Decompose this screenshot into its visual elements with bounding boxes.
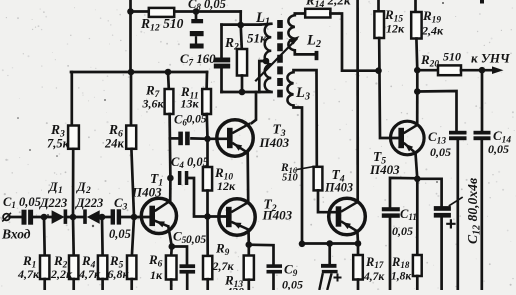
node T5 emitter junction	[414, 176, 421, 183]
wire R11 bottom lead	[205, 114, 208, 139]
svg-text:2: 2	[85, 186, 91, 196]
wire C1 to D1	[33, 216, 51, 219]
wire T2 base wire	[208, 215, 226, 218]
svg-text:0,05: 0,05	[488, 142, 509, 156]
svg-text:R20: R20	[420, 52, 439, 69]
svg-text:510: 510	[282, 173, 299, 184]
node T2 base junction	[204, 213, 211, 220]
svg-text:0,05: 0,05	[392, 224, 413, 238]
node T4 emitter junction	[355, 240, 362, 247]
node C10 tap	[326, 240, 333, 247]
svg-text:C6: C6	[174, 113, 187, 128]
svg-text:13к: 13к	[181, 97, 200, 111]
svg-text:7,5к: 7,5к	[47, 137, 70, 151]
svg-text:C13: C13	[428, 129, 446, 146]
label L3	[295, 85, 310, 103]
wire R10 bottom lead	[206, 191, 209, 217]
capacitor C12 electrolytic	[434, 206, 456, 228]
capacitor C10 electrolytic	[319, 264, 341, 290]
node L1 tap	[263, 58, 270, 65]
capacitor C13	[449, 131, 467, 140]
node bus left	[299, 241, 306, 248]
wire R15 bottom / T5 base column	[379, 38, 399, 138]
label Д2 Д223	[75, 180, 103, 210]
wire rail to R21 corner	[239, 12, 242, 26]
label T2	[264, 197, 277, 214]
label R5 6,8к	[108, 253, 130, 281]
wire T4 emitter lead	[356, 231, 359, 243]
wire C14 top lead	[481, 70, 484, 131]
capacitor C5	[180, 264, 196, 273]
wire R6 top lead	[130, 72, 133, 126]
wire R1 bottom lead	[43, 279, 46, 290]
label C3 value 0,05	[109, 227, 131, 241]
wire C9 bottom lead	[272, 274, 275, 291]
wire R3 bottom lead	[72, 149, 75, 217]
label R20 510	[420, 50, 461, 70]
coil L1	[265, 24, 272, 92]
wire R16 bottom lead to T4 base	[318, 190, 336, 212]
wire T5 collector lead	[416, 92, 419, 126]
label R6 1к	[148, 252, 163, 282]
svg-text:C3: C3	[114, 195, 128, 212]
label L2	[306, 33, 321, 51]
label C8 0,05	[188, 0, 226, 12]
resistor R14	[305, 9, 330, 18]
wire top supply rail y=11.5	[130, 10, 241, 13]
label R12 510	[140, 16, 184, 33]
wire L2 bottom lead	[295, 50, 315, 54]
coil L2	[288, 15, 294, 50]
wire T2 emitter lead	[247, 230, 250, 245]
ink speck top right	[480, 0, 484, 4]
label R13 value 430	[225, 285, 244, 295]
node R1 tap	[41, 214, 48, 221]
label Вход	[1, 227, 31, 242]
svg-text:L2: L2	[306, 33, 321, 51]
wire R4 top lead	[101, 217, 104, 256]
node R21 bottom junction	[239, 89, 246, 96]
resistor R3	[68, 126, 79, 149]
wire R1 top lead	[43, 217, 46, 256]
wire R2 bottom lead	[72, 279, 75, 290]
node bias rail / R7	[165, 69, 172, 76]
input terminal	[2, 213, 11, 222]
wire C14 bottom lead	[480, 140, 483, 290]
diode D2	[83, 209, 100, 224]
wire R6a bottom lead	[170, 280, 173, 291]
transistor T3	[217, 120, 253, 156]
wire resonant bottom wire y=92	[222, 91, 272, 94]
wire R7 top lead	[167, 72, 171, 89]
capacitor C4	[178, 171, 188, 185]
wire C10 stem	[328, 244, 331, 265]
label L1	[255, 10, 270, 28]
svg-text:Д: Д	[76, 180, 86, 194]
resistor R6 1k	[166, 256, 177, 280]
wire C11 branch	[390, 178, 417, 207]
svg-text:3,6к: 3,6к	[142, 97, 165, 111]
wire L1 tap lead	[259, 61, 266, 92]
label R1 4,7к	[17, 253, 40, 281]
svg-text:0,05: 0,05	[187, 114, 207, 126]
node C13 branch	[414, 88, 421, 95]
label C11 0,05	[392, 207, 417, 238]
resistor R4	[98, 256, 107, 280]
wire R7 bottom lead to node	[168, 114, 171, 178]
wire C7 top link	[222, 23, 261, 26]
svg-text:4,7к: 4,7к	[363, 271, 385, 283]
output arrow к УНЧ	[492, 66, 504, 74]
wire bias rail right corner	[205, 72, 208, 89]
svg-text:4,7к: 4,7к	[17, 267, 40, 281]
node R21 top junction	[237, 22, 244, 29]
transistor T2	[219, 199, 255, 235]
capacitor C11	[382, 207, 400, 218]
node detector junction	[70, 214, 77, 221]
wire C4 to T2 base column	[188, 178, 207, 217]
wire R19 top lead	[414, 0, 417, 12]
wire R6 bottom lead	[131, 149, 134, 217]
tuning arrow	[256, 36, 300, 81]
label R19 2,4к	[421, 8, 444, 38]
resistor R17	[353, 255, 363, 280]
wire C11 bottom lead	[389, 218, 392, 290]
wire L2 top lead	[295, 14, 305, 16]
label R13	[224, 273, 243, 290]
capacitor C9	[267, 264, 283, 273]
svg-text:12к: 12к	[386, 22, 405, 36]
wire C12 branch	[417, 179, 441, 206]
resistor R6 24k	[126, 126, 136, 149]
wire R18 lead	[416, 179, 419, 255]
svg-text:к УНЧ: к УНЧ	[471, 51, 511, 66]
label R7 3,6к	[142, 83, 165, 111]
wire R10 top lead	[206, 139, 209, 167]
transistor T5	[391, 121, 425, 155]
label R10 12к	[214, 165, 236, 193]
wire R13 top lead	[247, 245, 250, 256]
node T1 emitter junction	[169, 243, 176, 250]
svg-text:П403: П403	[262, 208, 293, 223]
capacitor C14	[474, 131, 491, 140]
wire R20 to output	[461, 69, 495, 72]
label C9 0,05	[282, 262, 303, 292]
wire R17 top lead	[357, 244, 360, 256]
svg-text:430: 430	[225, 285, 244, 291]
wire T3 emitter to T2 collector	[246, 153, 249, 202]
resistor R10	[203, 167, 212, 191]
label R21 value 51к	[247, 31, 267, 46]
svg-text:0,05: 0,05	[186, 234, 206, 246]
svg-text:П403: П403	[259, 135, 290, 150]
label T5 П403	[369, 162, 400, 177]
label R2 2,2к	[50, 253, 73, 281]
node R4 tap	[99, 214, 106, 221]
node C8 tap	[193, 8, 200, 15]
resistor R21	[237, 49, 247, 76]
wire C8 stem	[195, 12, 198, 20]
node bias rail / R6 column	[128, 69, 135, 76]
wire T3 base tap	[208, 137, 227, 140]
svg-text:C7 160: C7 160	[180, 52, 216, 67]
wire R5 bottom lead	[130, 279, 133, 290]
svg-text:П403: П403	[369, 162, 400, 177]
resistor R5	[127, 256, 136, 280]
svg-text:1: 1	[58, 186, 63, 196]
capacitor C3	[111, 209, 122, 224]
svg-text:C9: C9	[284, 262, 298, 279]
wire R19 bottom lead	[415, 39, 419, 71]
svg-text:1,8к: 1,8к	[391, 271, 412, 283]
resistor R20	[438, 65, 461, 75]
wire R6a top lead	[170, 247, 173, 256]
label R4 4,7к	[78, 253, 101, 281]
label T3	[273, 122, 286, 139]
resistor R13	[244, 256, 254, 280]
wire R21 bottom lead	[241, 76, 244, 93]
wire C12 bottom lead	[440, 218, 443, 290]
capacitor C1	[22, 210, 34, 225]
wire T4 collector lead	[356, 0, 359, 202]
svg-text:C12 80,0х4в: C12 80,0х4в	[465, 178, 483, 244]
label C12 80,0x4в	[450, 178, 483, 244]
svg-text:R17: R17	[365, 255, 384, 270]
wire R3 top lead	[70, 72, 73, 126]
svg-text:R6: R6	[148, 252, 163, 269]
wire C7 stem	[220, 25, 223, 58]
label R6 24к	[104, 122, 125, 151]
node C4 junction	[167, 175, 174, 182]
svg-text:2,4к: 2,4к	[421, 24, 444, 38]
node junction top rail / feed	[127, 8, 134, 15]
resistor R2	[69, 256, 78, 280]
node T2 emitter junction	[246, 241, 253, 248]
label C6 0,05	[174, 113, 207, 128]
wire vertical feed x=130.5	[129, 0, 132, 72]
node T3 base junction	[204, 136, 211, 143]
label R17 4,7к	[363, 255, 385, 283]
wire C5 top lead	[172, 247, 187, 265]
wire C7 bottom lead	[220, 69, 223, 93]
wire R18 bottom lead	[416, 276, 419, 290]
resistor R11	[202, 89, 211, 114]
coil L3	[287, 72, 293, 105]
resistor R16	[314, 167, 323, 191]
capacitor C7	[214, 58, 230, 69]
svg-text:0,05: 0,05	[282, 278, 303, 291]
wire C9 top lead	[249, 245, 274, 265]
label R21	[224, 35, 244, 52]
svg-text:Д223: Д223	[75, 196, 103, 210]
resistor R9	[203, 256, 212, 279]
label к УНЧ	[471, 51, 511, 66]
node C14 column top	[479, 67, 486, 74]
wire C13 bottom lead	[456, 140, 459, 290]
wire R17 bottom lead	[357, 280, 360, 291]
svg-text:Д: Д	[48, 180, 58, 194]
svg-text:0,05: 0,05	[109, 227, 131, 241]
wire C5 bottom lead	[186, 274, 189, 290]
label C13 0,05	[428, 129, 451, 159]
label R18 1,8к	[391, 255, 412, 283]
svg-text:C5: C5	[173, 229, 187, 246]
transistor T1	[141, 198, 176, 233]
svg-text:6,8к: 6,8к	[108, 267, 130, 281]
svg-text:12к: 12к	[217, 179, 236, 193]
wire transformer core	[277, 20, 283, 97]
svg-text:R12 510: R12 510	[140, 16, 184, 33]
resistor R1	[40, 256, 49, 280]
wire R13 bottom lead	[247, 280, 250, 290]
wire D2 to C3	[100, 216, 111, 219]
leader line R16	[297, 167, 314, 170]
label T2 П403	[262, 208, 293, 223]
svg-text:2,7к: 2,7к	[212, 259, 235, 273]
label R16 510	[280, 162, 299, 184]
svg-text:П403: П403	[324, 181, 353, 195]
label T1 П403	[131, 185, 162, 200]
wire C3 to T1 base	[121, 216, 150, 219]
wire T1 emitter lead	[168, 226, 172, 246]
wire R14 right lead	[330, 14, 378, 71]
svg-text:П403: П403	[131, 185, 162, 200]
wire L3 bottom lead	[294, 106, 303, 244]
terminal bar L2	[315, 51, 319, 60]
resistor R7	[165, 89, 174, 114]
wire y=72 bias rail	[71, 71, 207, 74]
node R20 junction	[414, 67, 421, 74]
label C1 0,05	[3, 195, 41, 210]
resistor R12	[149, 8, 174, 17]
diode D1	[52, 209, 68, 224]
wire T5 collector column	[416, 70, 419, 91]
wire L3 top lead	[294, 70, 317, 167]
label T4 П403	[324, 181, 353, 195]
wire to R20	[417, 69, 438, 72]
wire R5 top lead	[132, 217, 134, 256]
node T1 base junction	[131, 214, 138, 221]
wire R9 bottom lead	[206, 279, 209, 290]
svg-text:510: 510	[443, 50, 461, 64]
label R14 2,2к	[305, 0, 351, 10]
label R15 12к	[384, 7, 405, 36]
label C5 0,05	[173, 229, 206, 247]
label C4 0,05	[171, 155, 209, 170]
wire R9 top lead	[206, 217, 209, 256]
svg-text:0,05: 0,05	[430, 145, 451, 159]
svg-text:Вход: Вход	[1, 227, 31, 242]
svg-text:L3: L3	[295, 85, 310, 103]
svg-text:R18: R18	[391, 255, 410, 270]
wire R15 top lead	[377, 0, 380, 11]
resistor R15	[374, 11, 384, 38]
wire R2 top lead	[72, 217, 75, 256]
svg-text:C1 0,05: C1 0,05	[3, 195, 41, 210]
label T3 П403	[259, 135, 290, 150]
node R14 wire junction	[375, 67, 382, 74]
resistor R19	[411, 12, 421, 39]
capacitor C8	[190, 19, 204, 49]
wire T3 collector lead	[252, 92, 256, 123]
label T5	[373, 149, 386, 166]
svg-text:4,7к: 4,7к	[78, 267, 101, 281]
label T4	[332, 167, 345, 184]
svg-text:C8 0,05: C8 0,05	[188, 0, 226, 12]
wire emitter bus y=243.5	[302, 242, 358, 245]
label Д1 Д223	[39, 180, 67, 210]
resistor R18	[413, 255, 422, 276]
svg-text:Д223: Д223	[39, 196, 67, 210]
transistor T4	[329, 198, 366, 235]
svg-text:24к: 24к	[104, 137, 125, 151]
svg-text:1к: 1к	[150, 268, 163, 282]
svg-text:R9: R9	[215, 241, 230, 258]
label R3 7,5к	[47, 122, 70, 151]
label C3	[114, 195, 128, 212]
wire T5 emitter lead	[416, 153, 418, 179]
wire input to C1	[10, 216, 22, 219]
svg-text:C11: C11	[400, 207, 417, 222]
capacitor C6	[170, 132, 208, 146]
wire D1 to D2	[67, 216, 83, 219]
label R9 2,7к	[212, 241, 235, 274]
label C14 0,05	[488, 128, 511, 156]
wire L1 top lead	[261, 22, 272, 26]
label C7 160	[180, 52, 216, 67]
svg-text:2,2к: 2,2к	[50, 267, 73, 281]
wire R4 bottom lead	[101, 279, 104, 290]
wire C13 branch	[417, 91, 456, 131]
label R11 13к	[180, 84, 200, 111]
label T1	[150, 171, 163, 188]
wire R21 top lead	[241, 25, 242, 49]
wire T1 collector lead	[169, 178, 172, 201]
